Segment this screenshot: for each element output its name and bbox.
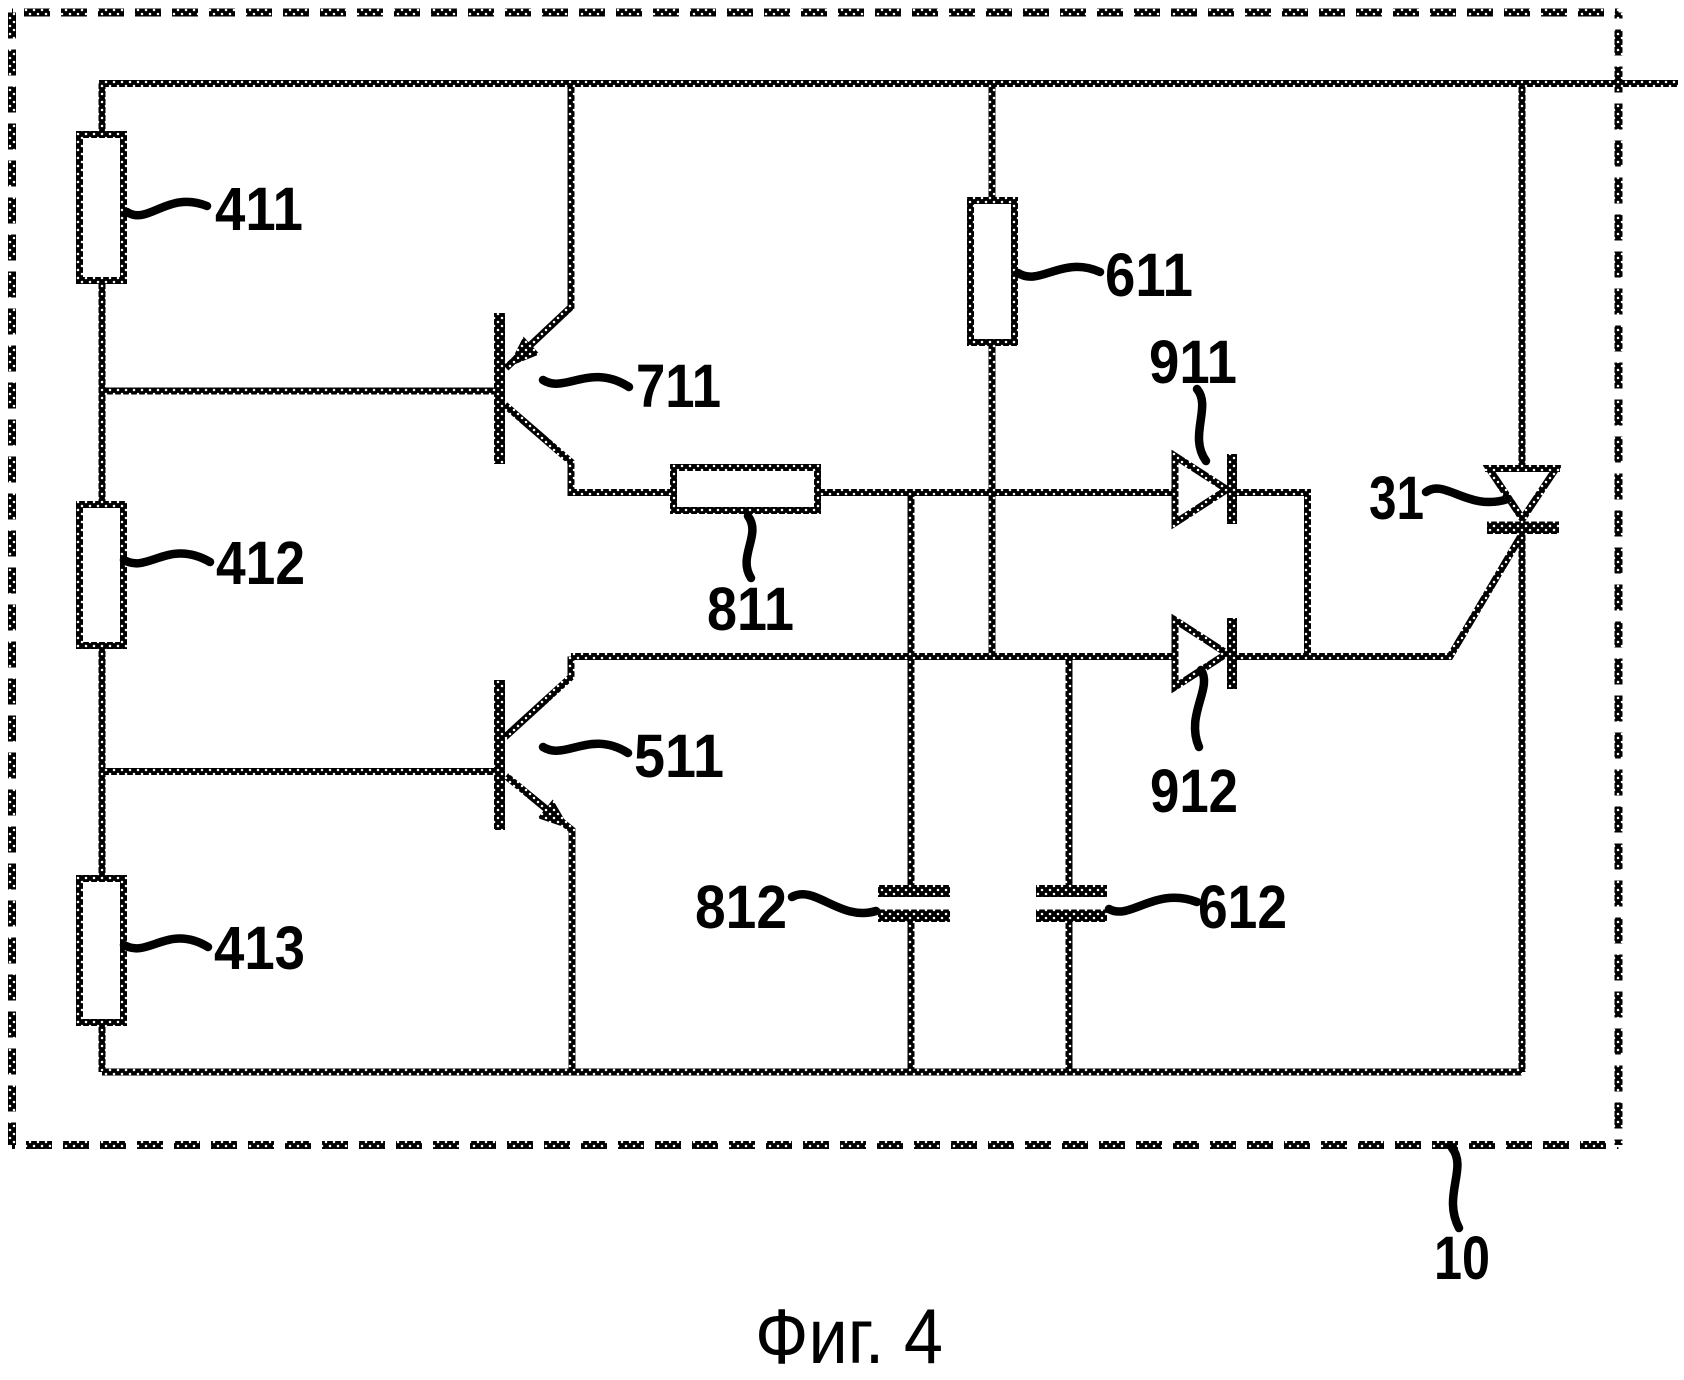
svg-text:412: 412 bbox=[216, 529, 305, 597]
svg-text:612: 612 bbox=[1198, 873, 1287, 941]
svg-text:911: 911 bbox=[1149, 328, 1237, 396]
svg-text:Фиг. 4: Фиг. 4 bbox=[755, 1292, 943, 1380]
svg-text:711: 711 bbox=[636, 352, 721, 420]
svg-text:31: 31 bbox=[1369, 464, 1424, 532]
svg-text:812: 812 bbox=[695, 873, 787, 941]
svg-text:411: 411 bbox=[215, 175, 303, 243]
svg-text:912: 912 bbox=[1150, 757, 1238, 825]
svg-text:511: 511 bbox=[634, 722, 724, 790]
svg-text:10: 10 bbox=[1434, 1224, 1490, 1292]
svg-text:811: 811 bbox=[707, 575, 794, 643]
svg-text:611: 611 bbox=[1105, 241, 1193, 309]
svg-text:413: 413 bbox=[214, 914, 305, 982]
